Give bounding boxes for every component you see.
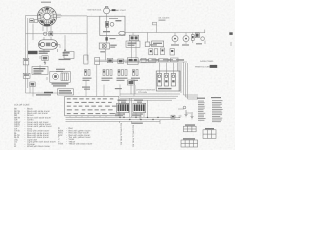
svg-text:White with black tracer: White with black tracer xyxy=(27,145,50,148)
svg-text:COLOR CODE: COLOR CODE xyxy=(14,103,30,106)
svg-text:COLUMN: COLUMN xyxy=(138,91,148,94)
svg-text:ELECTRICAL FUEL INJ.: ELECTRICAL FUEL INJ. xyxy=(120,123,123,146)
svg-text:ELECTRICAL FUEL INJ.: ELECTRICAL FUEL INJ. xyxy=(132,125,135,148)
svg-text:IGNITION COIL: IGNITION COIL xyxy=(88,8,103,11)
svg-text:Yellow with black tracer: Yellow with black tracer xyxy=(69,143,93,146)
svg-text:OIL GAUGE: OIL GAUGE xyxy=(159,16,171,19)
svg-text:TO START: TO START xyxy=(116,9,126,12)
svg-text:DASH PANEL: DASH PANEL xyxy=(200,60,214,63)
svg-text:Y/BK: Y/BK xyxy=(58,143,64,146)
